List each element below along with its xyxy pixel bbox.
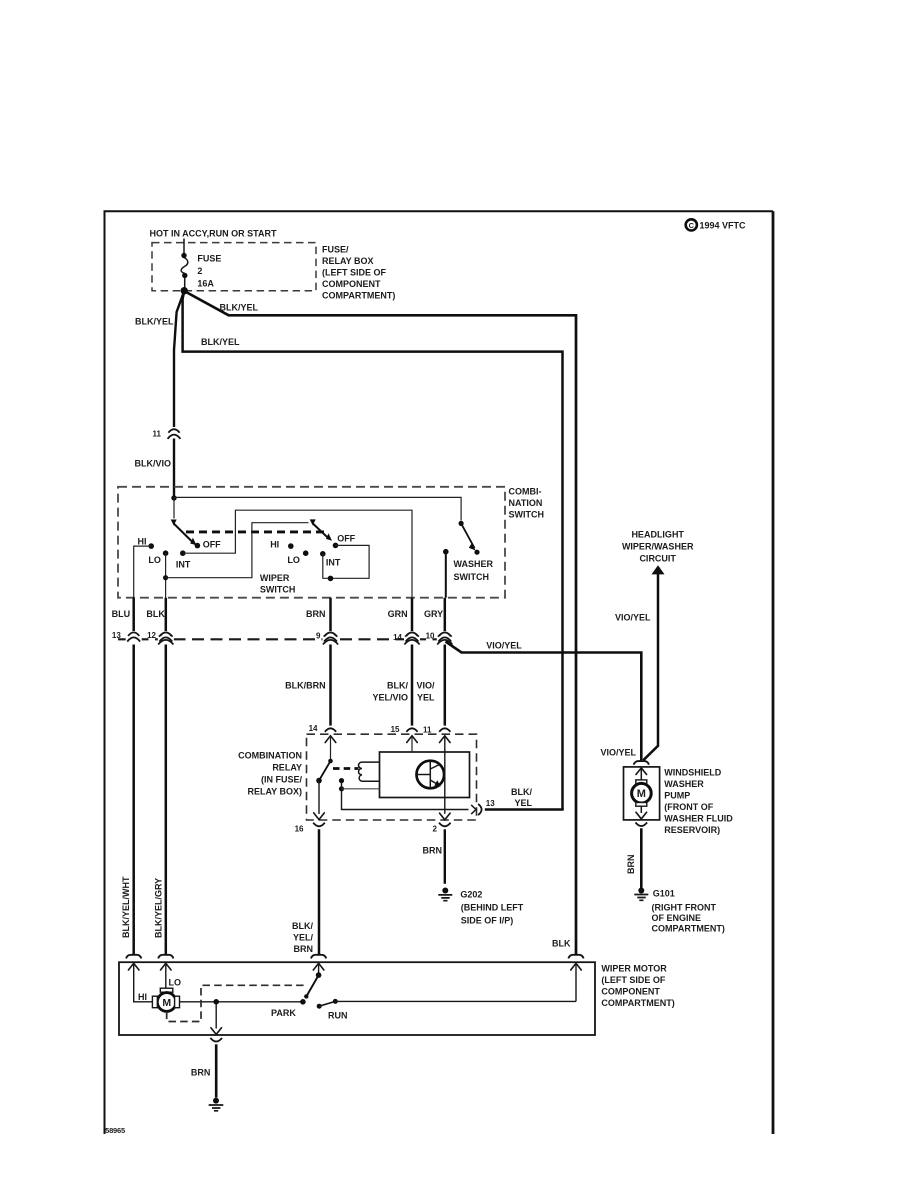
- svg-text:HEADLIGHT: HEADLIGHT: [631, 530, 684, 540]
- svg-text:HI: HI: [138, 992, 147, 1002]
- svg-text:RESERVOIR): RESERVOIR): [664, 825, 720, 835]
- svg-text:BLK/: BLK/: [387, 681, 408, 691]
- svg-text:GRY: GRY: [424, 609, 443, 619]
- svg-text:INT: INT: [326, 558, 341, 568]
- svg-text:2: 2: [433, 825, 438, 834]
- svg-text:SIDE OF I/P): SIDE OF I/P): [461, 916, 514, 926]
- svg-text:COMPARTMENT): COMPARTMENT): [601, 998, 674, 1008]
- svg-text:SWITCH: SWITCH: [509, 510, 545, 520]
- svg-text:BLK/: BLK/: [511, 787, 532, 797]
- svg-text:VIO/YEL: VIO/YEL: [486, 641, 522, 651]
- svg-text:HOT IN ACCY,RUN OR START: HOT IN ACCY,RUN OR START: [150, 229, 278, 239]
- svg-text:12: 12: [147, 631, 156, 640]
- svg-text:OFF: OFF: [337, 534, 355, 544]
- svg-text:RELAY BOX): RELAY BOX): [247, 787, 302, 797]
- svg-text:VIO/YEL: VIO/YEL: [600, 748, 636, 758]
- svg-text:BRN: BRN: [191, 1068, 211, 1078]
- svg-text:COMBI-: COMBI-: [509, 487, 542, 497]
- svg-text:HI: HI: [270, 540, 279, 550]
- svg-text:GRN: GRN: [388, 609, 408, 619]
- svg-text:C: C: [689, 221, 695, 230]
- svg-text:WIPER/WASHER: WIPER/WASHER: [622, 542, 694, 552]
- svg-text:YEL: YEL: [417, 693, 435, 703]
- svg-text:PUMP: PUMP: [664, 791, 690, 801]
- svg-text:HI: HI: [138, 537, 147, 547]
- svg-text:YEL/VIO: YEL/VIO: [372, 693, 408, 703]
- svg-text:BRN: BRN: [294, 944, 314, 954]
- svg-text:13: 13: [112, 631, 121, 640]
- svg-text:2: 2: [197, 266, 202, 276]
- svg-text:BRN: BRN: [423, 846, 443, 856]
- svg-text:13: 13: [486, 799, 495, 808]
- svg-text:FUSE/: FUSE/: [322, 245, 349, 255]
- svg-text:LO: LO: [148, 555, 161, 565]
- svg-text:BLK/YEL: BLK/YEL: [201, 337, 240, 347]
- svg-text:(BEHIND LEFT: (BEHIND LEFT: [461, 903, 524, 913]
- svg-text:BRN: BRN: [626, 855, 636, 875]
- svg-text:PARK: PARK: [271, 1008, 296, 1018]
- svg-text:15: 15: [391, 725, 400, 734]
- svg-text:YEL/: YEL/: [293, 933, 314, 943]
- svg-text:BLK/BRN: BLK/BRN: [285, 681, 326, 691]
- svg-text:LO: LO: [287, 555, 300, 565]
- svg-text:YEL: YEL: [514, 798, 532, 808]
- svg-text:16A: 16A: [197, 279, 214, 289]
- svg-text:LO: LO: [169, 978, 182, 988]
- svg-text:1994 VFTC: 1994 VFTC: [700, 221, 747, 231]
- svg-text:BLK/YEL: BLK/YEL: [220, 303, 259, 313]
- svg-text:RELAY BOX: RELAY BOX: [322, 256, 374, 266]
- svg-text:NATION: NATION: [509, 498, 543, 508]
- svg-text:BLK/YEL/GRY: BLK/YEL/GRY: [154, 878, 164, 938]
- svg-text:BLK/: BLK/: [292, 921, 313, 931]
- svg-text:RUN: RUN: [328, 1011, 348, 1021]
- svg-text:BLK: BLK: [146, 609, 165, 619]
- svg-text:16: 16: [295, 825, 304, 834]
- svg-text:58965: 58965: [105, 1126, 125, 1135]
- svg-text:BLK: BLK: [552, 939, 571, 949]
- svg-text:SWITCH: SWITCH: [260, 585, 296, 595]
- svg-text:COMPARTMENT): COMPARTMENT): [322, 291, 395, 301]
- svg-text:COMBINATION: COMBINATION: [238, 751, 302, 761]
- svg-text:BLK/VIO: BLK/VIO: [135, 459, 172, 469]
- svg-text:9: 9: [316, 632, 321, 641]
- svg-text:RELAY: RELAY: [272, 763, 302, 773]
- svg-text:INT: INT: [176, 560, 191, 570]
- svg-text:10: 10: [426, 632, 435, 641]
- svg-text:COMPONENT: COMPONENT: [322, 279, 381, 289]
- svg-text:BRN: BRN: [306, 609, 326, 619]
- svg-text:(FRONT OF: (FRONT OF: [664, 802, 713, 812]
- svg-text:11: 11: [153, 430, 162, 439]
- svg-text:VIO/: VIO/: [416, 681, 435, 691]
- svg-text:OFF: OFF: [203, 540, 221, 550]
- svg-text:VIO/YEL: VIO/YEL: [615, 613, 651, 623]
- svg-text:(RIGHT FRONT: (RIGHT FRONT: [652, 903, 717, 913]
- svg-text:M: M: [162, 997, 171, 1009]
- svg-text:G202: G202: [460, 890, 482, 900]
- svg-text:WIPER MOTOR: WIPER MOTOR: [601, 964, 667, 974]
- svg-text:14: 14: [393, 633, 402, 642]
- svg-text:WINDSHIELD: WINDSHIELD: [664, 768, 721, 778]
- svg-text:COMPONENT: COMPONENT: [601, 987, 660, 997]
- svg-text:BLK/YEL/WHT: BLK/YEL/WHT: [121, 876, 131, 938]
- svg-text:WASHER: WASHER: [664, 779, 704, 789]
- svg-text:(LEFT SIDE OF: (LEFT SIDE OF: [322, 268, 387, 278]
- svg-text:WIPER: WIPER: [260, 573, 290, 583]
- svg-text:M: M: [637, 788, 646, 800]
- svg-text:OF ENGINE: OF ENGINE: [652, 913, 702, 923]
- svg-text:SWITCH: SWITCH: [454, 572, 490, 582]
- svg-text:WASHER: WASHER: [454, 559, 494, 569]
- svg-text:COMPARTMENT): COMPARTMENT): [652, 924, 725, 934]
- svg-text:FUSE: FUSE: [197, 254, 221, 264]
- svg-text:G101: G101: [653, 889, 675, 899]
- svg-text:BLK/YEL: BLK/YEL: [135, 317, 174, 327]
- svg-text:11: 11: [423, 726, 432, 735]
- svg-text:(IN FUSE/: (IN FUSE/: [261, 775, 303, 785]
- svg-text:CIRCUIT: CIRCUIT: [639, 554, 676, 564]
- svg-text:BLU: BLU: [112, 609, 131, 619]
- svg-text:WASHER FLUID: WASHER FLUID: [664, 814, 733, 824]
- svg-text:14: 14: [309, 724, 318, 733]
- svg-text:(LEFT SIDE OF: (LEFT SIDE OF: [601, 975, 666, 985]
